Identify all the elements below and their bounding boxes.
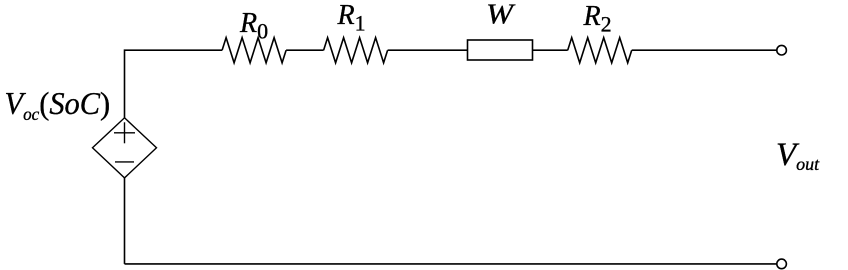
bottom wire to bottom output terminal (125, 263, 777, 265)
svg-text:R0: R0 (239, 8, 268, 44)
minus sign of source (115, 161, 134, 163)
node: top output terminal (777, 45, 787, 55)
wire R2 to top output terminal (632, 49, 777, 51)
node: bottom output terminal (777, 259, 787, 269)
voltage source V_oc(SoC) diamond (93, 118, 157, 178)
resistor R0 (222, 38, 286, 63)
svg-text:R1: R1 (337, 0, 366, 36)
wire from source bottom to bottom rail (124, 178, 126, 264)
wire from source top to R0 (125, 50, 223, 118)
svg-text:W: W (486, 0, 516, 31)
svg-text:Voc(SoC): Voc(SoC) (5, 85, 111, 124)
wire W to R2 (533, 49, 568, 51)
wire R1 to W (388, 49, 468, 51)
resistor R2 (568, 38, 632, 63)
svg-text:Vout: Vout (776, 137, 820, 174)
svg-text:R2: R2 (583, 1, 612, 37)
Warburg element W (468, 40, 533, 60)
resistor R1 (324, 38, 388, 63)
wire R0 to R1 (286, 49, 324, 51)
plus sign of source (114, 132, 135, 134)
